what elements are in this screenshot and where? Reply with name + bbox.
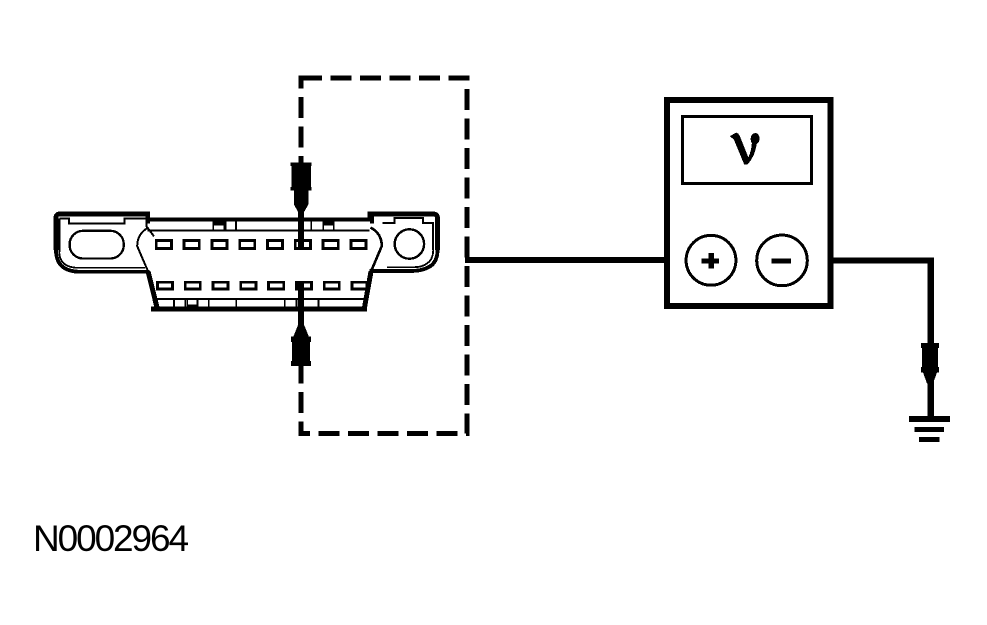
right ear top edge xyxy=(370,214,438,250)
body right lower slant edge (thick) xyxy=(365,272,372,308)
DLC connector outer silhouette (white fill body) xyxy=(56,212,438,309)
body bottom inner line xyxy=(154,298,368,300)
left ear bottom rounded corner xyxy=(56,250,150,272)
wire: dashed box to voltmeter + terminal xyxy=(465,257,687,263)
top band key block left (dark with white notch) xyxy=(212,222,224,230)
top band key block right (dark with white notch) xyxy=(322,222,334,230)
bottom band dark block with white notch xyxy=(187,299,199,307)
wire: voltmeter - terminal to right corner and down to ground xyxy=(807,261,931,417)
top probe shaft into pin 6 xyxy=(298,205,304,248)
body white fill (shoulder bulges) xyxy=(137,228,382,309)
ear/body junction stub right xyxy=(370,212,374,223)
left ear top edge xyxy=(56,214,148,250)
+ terminal circle xyxy=(686,235,736,285)
body top inner line xyxy=(148,230,370,232)
body left lower slant edge (thick) xyxy=(148,272,157,308)
- terminal circle xyxy=(757,235,808,286)
figure number label xyxy=(33,518,187,560)
round hole in right ear xyxy=(395,229,424,258)
V symbol in display xyxy=(730,133,760,165)
bottom row pin cavities xyxy=(157,282,367,289)
voltmeter display window xyxy=(683,117,812,184)
ground symbol bar 1 xyxy=(909,416,950,422)
right probe body on ground lead xyxy=(921,343,939,384)
voltmeter body xyxy=(667,100,831,306)
body right shoulder thin curve xyxy=(371,228,382,272)
left ear inner bottom contour xyxy=(59,252,145,268)
dashed test-lead box xyxy=(301,78,467,434)
body bottom edge xyxy=(151,307,367,312)
+ sign xyxy=(701,253,719,269)
right probe shaft xyxy=(927,385,933,417)
body left shoulder thin curve xyxy=(137,228,148,272)
body top edge xyxy=(146,218,373,222)
left ear inner contour xyxy=(59,218,154,252)
ear/body junction stub left xyxy=(146,212,150,223)
oval hole in left ear xyxy=(70,231,124,259)
top probe body xyxy=(291,163,312,213)
right ear inner bottom contour xyxy=(387,250,433,267)
top row pin cavities xyxy=(156,241,366,249)
bottom probe shaft from bottom pin xyxy=(298,284,304,331)
ground symbol bar 3 xyxy=(919,437,940,442)
right ear inner contour xyxy=(383,218,434,250)
ground symbol bar 2 xyxy=(915,427,944,432)
bottom band key cells xyxy=(174,299,318,308)
- sign xyxy=(772,259,791,264)
bottom probe body (mirrored, points up) xyxy=(291,326,311,367)
right ear bottom rounded corner xyxy=(370,250,438,271)
